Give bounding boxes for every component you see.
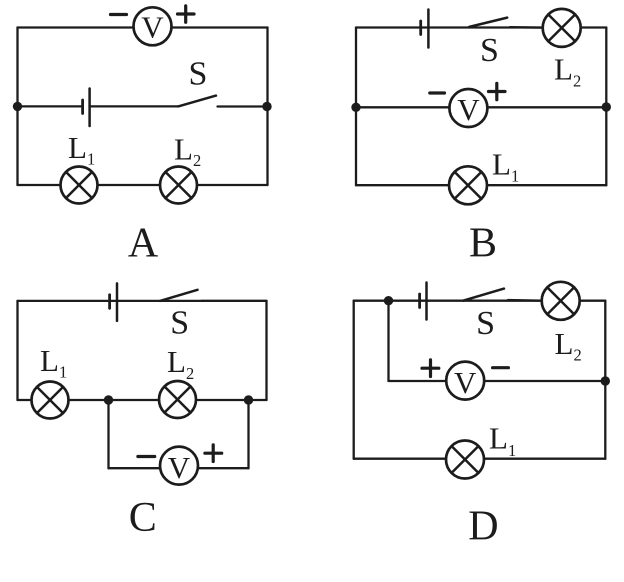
battery (circuit C) xyxy=(110,283,117,321)
polarity label + (A voltmeter plus) xyxy=(178,6,195,23)
svg-text:D: D xyxy=(468,504,498,550)
switch S (circuit D) xyxy=(463,289,542,301)
wire: C voltmeter branch bottom xyxy=(109,467,249,469)
svg-text:S: S xyxy=(189,56,208,93)
polarity label + (C voltmeter plus) xyxy=(205,445,222,462)
polarity label + (D voltmeter plus) xyxy=(422,360,439,377)
lamp L1 (circuit C) xyxy=(32,382,69,419)
voltmeter V (circuit A) xyxy=(134,7,172,45)
node: D right junction xyxy=(601,376,610,385)
battery (circuit B) xyxy=(421,10,429,48)
switch S (circuit A) xyxy=(178,96,267,107)
wire: D inner vertical from top junction xyxy=(387,301,389,381)
lamp L2 (circuit C) xyxy=(159,381,196,418)
voltmeter V (circuit B) xyxy=(449,89,487,127)
svg-text:V: V xyxy=(454,365,477,400)
svg-text:S: S xyxy=(170,305,189,342)
wire: A middle wire left segment xyxy=(18,105,83,107)
wire: D middle wire xyxy=(389,380,606,382)
wire: B left vertical xyxy=(355,28,357,186)
node: B left junction xyxy=(351,103,360,112)
svg-text:B: B xyxy=(469,221,497,267)
wire: A right vertical xyxy=(266,28,268,186)
lamp L1 (circuit D) xyxy=(446,441,484,479)
wire: C voltmeter branch left drop xyxy=(107,400,109,468)
wire: A middle wire to switch xyxy=(90,105,179,107)
wire: D right vertical xyxy=(604,301,606,459)
wire: A top wire xyxy=(18,26,268,28)
svg-text:S: S xyxy=(480,32,499,69)
svg-text:V: V xyxy=(141,10,164,45)
node: A right junction xyxy=(262,102,271,111)
svg-text:C: C xyxy=(129,495,157,541)
wire: A left vertical xyxy=(16,28,18,186)
polarity label - (A voltmeter minus) xyxy=(111,13,127,16)
lamp L2 (circuit B) xyxy=(543,9,581,47)
wire: A bottom wire xyxy=(18,184,268,186)
wire: C left vertical xyxy=(16,301,18,400)
lamp L2 (circuit D) xyxy=(542,282,580,320)
lamp L2 (circuit A) xyxy=(160,167,197,204)
wire: C top wire xyxy=(18,300,267,302)
svg-text:V: V xyxy=(457,92,480,127)
wire: B right vertical xyxy=(605,28,607,186)
svg-text:A: A xyxy=(128,221,159,267)
wire: B bottom wire xyxy=(356,184,606,186)
node: C left tap junction xyxy=(104,395,113,404)
switch S (circuit B) xyxy=(469,18,543,28)
wire: D top wire xyxy=(354,300,606,302)
voltmeter V (circuit D) xyxy=(446,362,484,400)
wire: C voltmeter branch right drop xyxy=(247,400,249,468)
svg-text:S: S xyxy=(476,305,495,342)
polarity label - (D voltmeter minus) xyxy=(493,366,509,369)
polarity label - (C voltmeter minus) xyxy=(138,455,155,458)
node: C right tap junction xyxy=(244,395,253,404)
switch S (circuit C) xyxy=(160,290,267,301)
wire: B top wire xyxy=(356,26,606,28)
voltmeter V (circuit C) xyxy=(160,447,198,485)
polarity label + (B voltmeter plus) xyxy=(489,83,506,99)
lamp L1 (circuit B) xyxy=(449,166,487,204)
node: B right junction xyxy=(602,102,611,111)
wire: D outer left vertical xyxy=(353,301,355,459)
wire: C right vertical xyxy=(265,301,267,400)
svg-text:V: V xyxy=(168,450,191,485)
node: D top junction xyxy=(384,296,393,305)
polarity label - (B voltmeter minus) xyxy=(430,91,445,94)
battery (circuit D) xyxy=(420,283,427,320)
wire: D bottom wire xyxy=(354,458,606,460)
lamp L1 (circuit A) xyxy=(61,167,98,204)
node: A left junction xyxy=(13,102,22,111)
wire: B middle wire xyxy=(356,106,606,108)
battery (circuit A) xyxy=(83,89,90,127)
wire: C middle wire xyxy=(18,399,267,401)
